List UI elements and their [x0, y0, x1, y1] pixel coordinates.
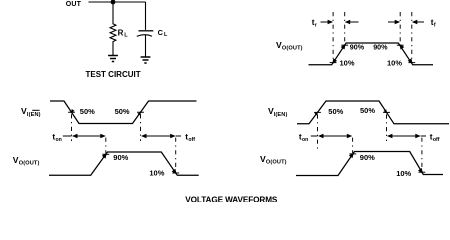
tf arrow to 90% line — [388, 21, 396, 23]
svg-text:50%: 50% — [328, 107, 343, 116]
svg-text:90%: 90% — [350, 42, 365, 51]
toff arrow BL — [141, 134, 147, 139]
tick 10% falling — [408, 62, 415, 64]
tick 50% falling BR — [383, 111, 390, 113]
arrowhead 10% BR — [418, 168, 423, 174]
ton leader BL — [63, 135, 72, 137]
tick 10% BL — [172, 172, 179, 174]
svg-text:90%: 90% — [360, 153, 375, 162]
ton leader BR — [311, 135, 318, 137]
tick 90% BR — [349, 153, 356, 155]
svg-text:I(EN): I(EN) — [274, 112, 288, 118]
toff leader BR — [421, 135, 426, 137]
resistor RL — [110, 2, 116, 56]
dashdot from 50% falling down BL — [71, 114, 73, 141]
arrowhead down edge falling — [408, 58, 413, 64]
ton arrow BR — [318, 134, 324, 139]
output waveform top-right — [309, 43, 434, 65]
svg-text:L: L — [164, 32, 168, 38]
tick 50% falling BL — [68, 111, 75, 113]
arrowhead up edge rising — [341, 44, 346, 50]
dashdot to 90% BR — [352, 138, 354, 153]
svg-text:on: on — [302, 137, 308, 143]
dashdot line at 10% falling — [411, 12, 413, 62]
svg-text:O(OUT): O(OUT) — [282, 46, 303, 52]
svg-text:R: R — [118, 29, 124, 38]
svg-text:TEST CIRCUIT: TEST CIRCUIT — [86, 70, 141, 79]
svg-text:O(OUT): O(OUT) — [266, 160, 287, 166]
svg-text:r: r — [315, 22, 317, 28]
tick 90% rising — [341, 44, 348, 46]
svg-text:VOLTAGE WAVEFORMS: VOLTAGE WAVEFORMS — [185, 196, 278, 202]
arrowhead up edge falling — [399, 44, 404, 50]
svg-text:off: off — [433, 137, 440, 143]
arrowhead 90% BL — [102, 153, 107, 159]
tick 10% BR — [419, 171, 426, 173]
tick 10% rising — [330, 62, 337, 64]
dashdot from 50% falling down BR — [386, 114, 388, 141]
svg-text:on: on — [56, 137, 62, 143]
tr arrow to 10% line — [321, 21, 330, 23]
dashdot line at 90% rising — [344, 12, 346, 44]
output waveform bottom-left — [49, 152, 199, 175]
ground under CL — [141, 56, 151, 58]
tick 50% rising BL — [137, 111, 144, 113]
ton arrow BL — [72, 134, 78, 139]
tick 90% BL — [102, 153, 109, 155]
arrowhead 50% falling BL — [71, 109, 75, 113]
dashdot line at 90% falling — [399, 12, 401, 44]
svg-text:10%: 10% — [396, 169, 411, 178]
enable waveform bottom-left — [50, 101, 197, 124]
junction dot — [111, 0, 116, 4]
svg-text:90%: 90% — [113, 153, 128, 162]
ground under RL — [108, 55, 118, 57]
dashdot to 90% BL — [105, 138, 107, 154]
svg-text:f: f — [434, 22, 436, 28]
tf arrow from 10% line — [412, 20, 418, 25]
svg-text:10%: 10% — [387, 58, 402, 67]
arrowhead down edge rising — [332, 58, 337, 64]
svg-text:off: off — [188, 137, 195, 143]
svg-text:O(OUT): O(OUT) — [19, 161, 40, 167]
arrowhead 50% falling BR — [384, 109, 388, 113]
output waveform bottom-right — [296, 152, 443, 176]
enable waveform bottom-right — [297, 101, 449, 124]
tr arrow from 90% line — [345, 20, 351, 25]
svg-text:90%: 90% — [373, 42, 388, 51]
tick 90% falling — [397, 44, 404, 46]
arrowhead 90% BR — [349, 152, 354, 158]
toff leader BL — [176, 135, 181, 137]
svg-text:C: C — [158, 28, 164, 37]
wire OUT horizontal — [89, 1, 146, 3]
wire capacitor to ground — [145, 34, 147, 57]
svg-text:OUT: OUT — [66, 1, 82, 8]
dashdot to 10% BL — [175, 138, 177, 170]
dashdot from 50% rising down BL — [140, 114, 142, 141]
arrowhead 10% BL — [172, 169, 177, 175]
toff arrow BR — [387, 134, 393, 139]
svg-text:10%: 10% — [340, 58, 355, 67]
wire down to capacitor — [145, 2, 147, 30]
arrowhead 50% rising BL — [138, 111, 142, 115]
svg-text:L: L — [124, 33, 128, 39]
dashdot line at 10% rising — [332, 12, 334, 62]
dashdot to 10% BR — [421, 138, 423, 169]
arrowhead 50% rising BR — [314, 111, 318, 115]
svg-text:50%: 50% — [360, 106, 375, 115]
svg-text:10%: 10% — [149, 168, 164, 177]
svg-text:50%: 50% — [80, 107, 95, 116]
svg-text:50%: 50% — [115, 107, 130, 116]
tick 50% rising BR — [314, 111, 321, 113]
dashdot from 50% rising down BR — [317, 114, 319, 149]
svg-text:I(EN): I(EN) — [27, 112, 41, 118]
capacitor CL — [139, 30, 154, 32]
